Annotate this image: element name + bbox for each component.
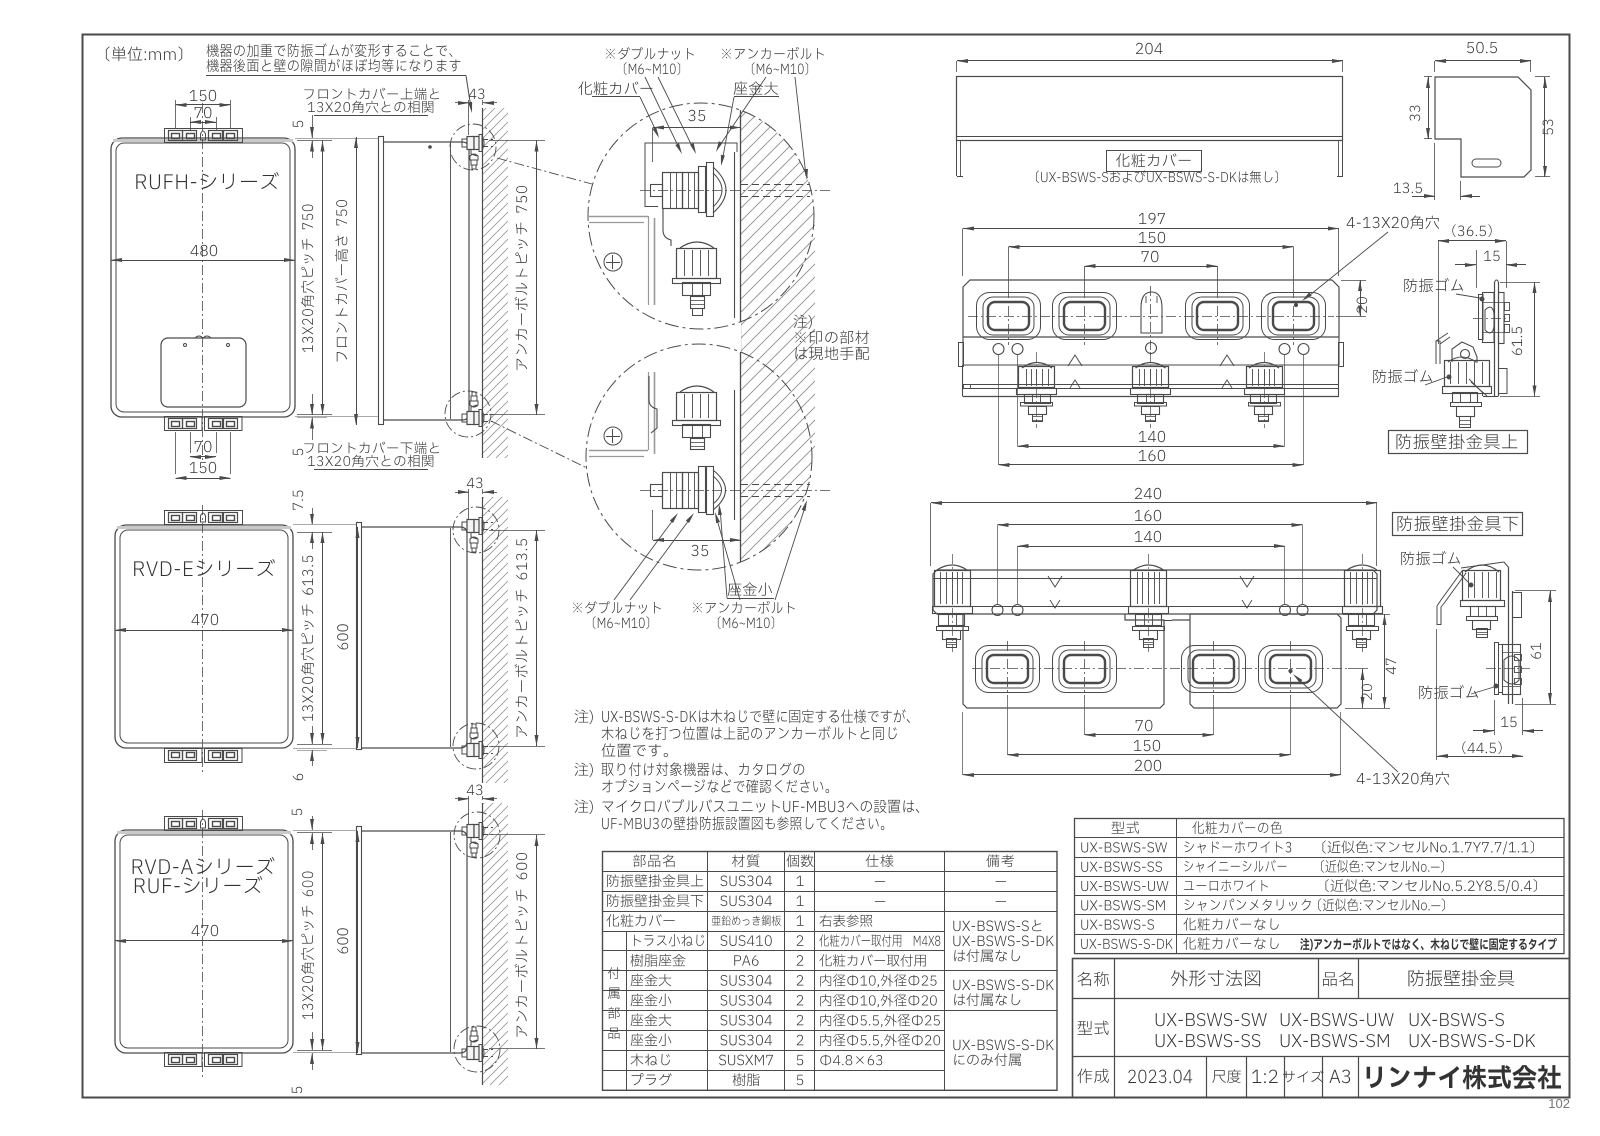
dim 70 bottom (190, 432, 192, 453)
anchor bolts RVD-E (453, 507, 499, 553)
centerline lower side view (1486, 668, 1530, 670)
dim 470 (115, 940, 293, 942)
cover front view (957, 77, 1343, 141)
dims above lower bracket (1135, 488, 1161, 499)
RUFH label (136, 172, 279, 189)
rubber labels upper (1404, 278, 1463, 292)
keyhole slot top centre (201, 131, 206, 140)
dim (44.5) (1462, 741, 1501, 754)
keyhole slot (1141, 292, 1162, 333)
dim 5 top (297, 830, 327, 832)
note front-cover top relation (304, 88, 439, 100)
dim anchor bolt pitch 613.5 (489, 530, 545, 532)
decorative cover section (645, 143, 737, 207)
dim 6 bottom (297, 750, 327, 752)
detail circle 1 (top mount) (588, 103, 814, 329)
anchor bolts RVD-A (454, 812, 500, 858)
dim 7.5 (297, 524, 327, 526)
dim 150 top (175, 100, 177, 128)
second band + ears (963, 337, 1339, 365)
dim 43 (467, 785, 483, 796)
upper bracket side view (1436, 280, 1510, 428)
wall face + hatch (482, 803, 484, 1085)
cover side view (1435, 77, 1531, 177)
dim 13.5 (1394, 183, 1422, 194)
dim 13X20 hole pitch 613.5 (322, 532, 324, 744)
dim 600 side height (357, 527, 359, 748)
leader to detail circle 2 (491, 421, 587, 468)
dim (36.5) (1452, 224, 1491, 237)
label 4-13X20 square holes (lower) (1357, 771, 1450, 785)
label: washer large (734, 81, 778, 94)
dim 35 (bottom) (691, 545, 708, 556)
phillips screw (604, 253, 622, 271)
dims above upper bracket (1139, 213, 1165, 224)
notes (575, 710, 593, 725)
dim 43 (469, 89, 485, 100)
heater front view outline (115, 525, 293, 748)
anchor bolt hidden in wall (dashed) (741, 184, 810, 186)
dim 5 bottom (297, 1052, 327, 1054)
RVD-E top mounting bracket (165, 511, 243, 525)
note front-cover bottom relation (304, 442, 439, 454)
label 4-13X20 square holes (1347, 215, 1440, 229)
dim anchor bolt pitch 600 (489, 834, 545, 836)
lower plates with grommets (963, 614, 1164, 708)
RVD-E bottom bracket (165, 749, 203, 763)
dim 47 (1386, 658, 1396, 674)
vibration rubber mount (680, 242, 714, 248)
control panel (161, 338, 246, 407)
dim 13X20 hole pitch 750 (322, 141, 324, 416)
RUFH bottom mounting bracket (165, 417, 203, 431)
dims below upper bracket (1139, 431, 1165, 442)
dim 43 (467, 478, 483, 489)
dim front cover height 750 (356, 137, 358, 425)
label washer small (728, 582, 772, 595)
dim 204 (1136, 43, 1162, 54)
bracket lower profile (649, 376, 657, 433)
dim 53 (1543, 120, 1554, 135)
label: decorative cover (578, 81, 652, 95)
vibration rubber mount (bolt up) (680, 386, 714, 392)
centerline (202, 103, 204, 462)
RVD-A labels (133, 857, 275, 874)
dim 5 top (297, 138, 327, 140)
grey projection lines (295, 138, 378, 140)
dim 470 (115, 630, 293, 632)
bracket upper profile (663, 208, 671, 246)
heater front view outline (115, 830, 293, 1053)
colour table (1075, 819, 1565, 954)
centerlines (968, 316, 1334, 318)
dim 150 bottom (175, 432, 177, 474)
small holes lower (992, 605, 1003, 616)
RVD-A top bracket (165, 817, 243, 831)
anchor bolt bottom (detail circle) (445, 391, 491, 437)
RVD-E side view (357, 523, 362, 750)
dim 61 (1531, 643, 1541, 659)
double nut + washer assembly (axis y=190) (651, 185, 663, 197)
dim 13X20 hole pitch 600 (322, 833, 324, 1050)
heater bottom corner (grey) (589, 450, 648, 452)
centerline upper side view (1473, 318, 1510, 320)
parts table (603, 852, 1058, 1091)
note: rubber deformation (206, 43, 452, 57)
RVD-A bottom bracket (165, 1053, 203, 1067)
dim 480 (111, 260, 295, 262)
wall hatching (483, 108, 508, 458)
RUFH top mounting bracket (165, 129, 243, 143)
centerline (202, 505, 204, 775)
dim 20 right (1357, 297, 1368, 313)
RVD-A side view (357, 827, 362, 1055)
detail circle 2 (bottom mount) (586, 344, 812, 570)
note: field supplied parts (794, 315, 812, 330)
leader to detail circle 1 (497, 158, 592, 184)
dim 5 bottom (297, 417, 327, 419)
boxed label: upper bracket (1389, 431, 1528, 454)
lower strips (962, 365, 964, 397)
RUFH side view body (383, 142, 469, 420)
rubber bolts upper bracket (1022, 363, 1052, 369)
RVD-E label (134, 559, 275, 576)
cover label box (1107, 151, 1202, 172)
wall face (482, 108, 484, 458)
lower bracket top band (933, 570, 1377, 614)
dim 600 side height (357, 831, 359, 1053)
merged remark texts (953, 920, 1041, 931)
vertical label fuzoku-buhin (608, 967, 620, 979)
dim anchor bolt pitch 750 (489, 140, 545, 142)
phillips screw (604, 427, 622, 445)
dims below lower bracket (1136, 720, 1153, 731)
grommet holes (977, 293, 1041, 340)
rubber bolts lower bracket (937, 565, 967, 570)
labels double nut / anchor bolt (bottom) (573, 601, 661, 614)
wall face + hatch (482, 497, 484, 783)
heater top corner (grey) (589, 216, 648, 218)
dim 33 (1410, 106, 1421, 121)
weld marks lower (1048, 576, 1062, 587)
dim 20 lower (1362, 684, 1373, 700)
weld marks (1068, 355, 1082, 366)
anchor bolt hidden (dashed) (741, 484, 810, 486)
rubber labels lower (1401, 551, 1460, 565)
unit note (106, 46, 182, 61)
centerlines lower (972, 668, 1348, 670)
heater front view outline (111, 138, 295, 417)
boxed label: lower bracket (1393, 513, 1523, 536)
lower bracket side view (1437, 562, 1522, 704)
small holes (993, 344, 1004, 355)
title block (1073, 959, 1570, 1098)
RUFH side view front cover plate (379, 137, 384, 425)
dim 70 top (190, 117, 192, 130)
dim 15 lower side (1501, 717, 1517, 727)
dim 35 (top) (688, 110, 705, 121)
labels: double nut / anchor bolt (top) (606, 47, 694, 60)
dim 50.5 (1467, 42, 1497, 53)
upper bracket plate (963, 280, 1339, 337)
leader arrow from note to wall (466, 76, 471, 109)
dim 61.5 (1512, 327, 1522, 355)
dim 15 upper side (1484, 251, 1500, 261)
double nut + washer assembly (axis y=490) (651, 485, 663, 497)
anchor bolt top (detail circle) (450, 124, 496, 170)
centerline (202, 810, 204, 1080)
